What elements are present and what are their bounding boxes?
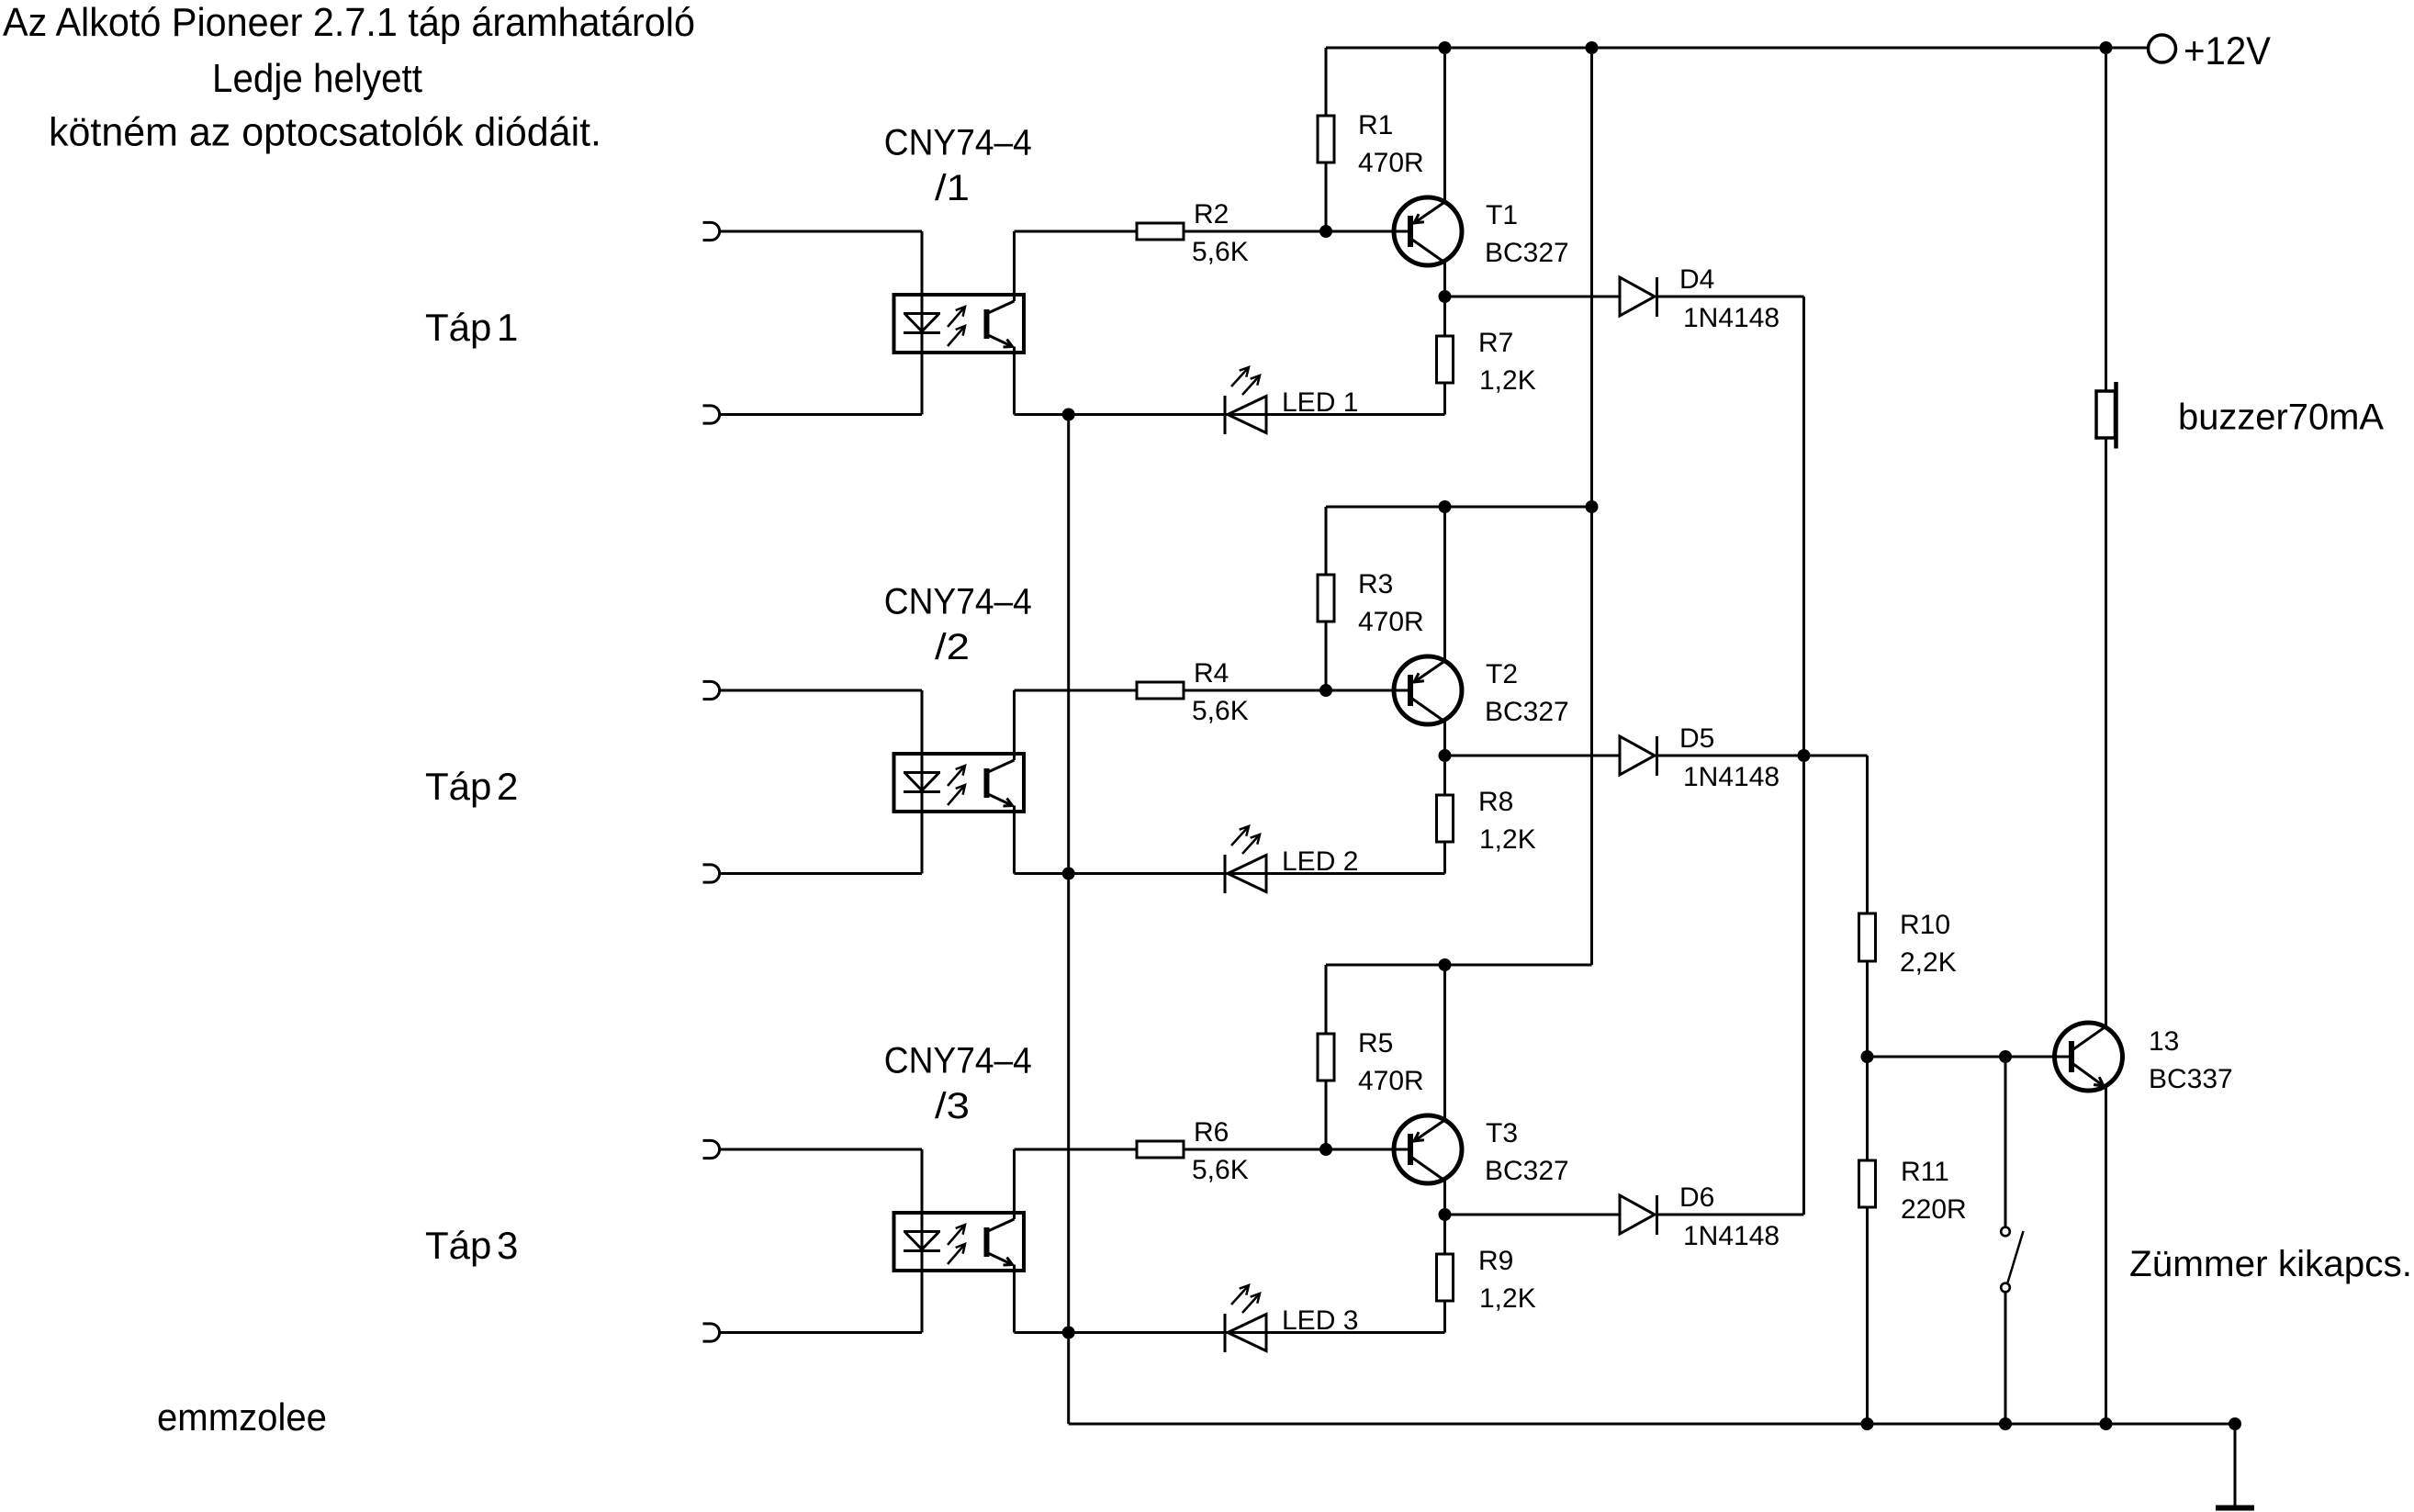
svg-text:R2: R2 — [1194, 199, 1229, 230]
LED 2 emission arrows — [1231, 826, 1249, 846]
wire: section 3 top feed — [1326, 964, 1592, 967]
resistor R5 body — [1318, 1034, 1334, 1081]
svg-text:CNY74–4: CNY74–4 — [884, 123, 1032, 163]
svg-text:CNY74–4: CNY74–4 — [884, 1041, 1032, 1081]
node: T2 emitter branch on section top — [1439, 500, 1452, 513]
LED 2 cathode bar — [1224, 855, 1227, 893]
wire: T2 emitter up — [1443, 507, 1446, 661]
transistor Q13 collector — [2073, 1026, 2106, 1049]
node: switch branch on base wire — [1999, 1050, 2012, 1063]
terminal input 1b — [703, 406, 720, 423]
optocoupler U1 body (CNY74-4/1) — [894, 295, 1025, 353]
resistor R8 body — [1437, 795, 1454, 842]
svg-text:470R: 470R — [1358, 1066, 1424, 1096]
svg-text:Táp: Táp — [425, 306, 491, 349]
switch bottom contact — [2001, 1283, 2010, 1293]
resistor R10 body — [1859, 913, 1876, 961]
wire: section 2 top feed — [1326, 506, 1592, 509]
opto U1 coupling arrows — [948, 307, 965, 327]
wire: opto1 collector to R2 — [1015, 230, 1138, 233]
node: supply rail joint at section 2 top — [1586, 500, 1599, 513]
svg-text:emmzolee: emmzolee — [157, 1395, 327, 1439]
wire: LED rail down to ground wire — [1067, 1333, 1070, 1425]
wire: D5 anode wire — [1445, 755, 1621, 757]
wire: R4 to base junction — [1184, 689, 1408, 692]
transistor T2 BC327 circle — [1394, 656, 1462, 724]
LED 3 cathode bar — [1224, 1314, 1227, 1352]
wire: input 1b to opto LED cathode — [719, 413, 922, 416]
svg-text:CNY74–4: CNY74–4 — [884, 582, 1032, 622]
wire: ground stub — [2234, 1424, 2237, 1506]
wire: R1 bottom to base junction — [1325, 162, 1328, 231]
wire: LED rail (LED2-LED3) — [1067, 874, 1070, 1333]
svg-text:T1: T1 — [1486, 200, 1518, 230]
wire: R3 bottom to base junction — [1325, 622, 1328, 690]
resistor R4 body — [1137, 682, 1184, 699]
terminal input 3a — [703, 1140, 720, 1158]
wire: opto3 collector up — [1013, 1149, 1016, 1219]
resistor R7 body — [1437, 336, 1454, 383]
svg-text:LED 1: LED 1 — [1282, 387, 1358, 418]
wire: D4 cathode to OR rail — [1657, 296, 1804, 298]
ground — [2216, 1506, 2254, 1511]
wire: base wire into Q13 — [2069, 1056, 2072, 1058]
opto U2 phototransistor emitter with arrow — [988, 794, 1013, 806]
svg-text:/2: /2 — [935, 627, 970, 667]
wire: R9 bottom to LED wire — [1443, 1301, 1446, 1333]
svg-text:R8: R8 — [1478, 787, 1513, 817]
wire: R1 top from +12V rail — [1325, 48, 1328, 116]
opto U1 internal LED — [904, 314, 940, 333]
opto U2 phototransistor collector — [988, 760, 1015, 772]
wire: D6 anode wire — [1445, 1214, 1621, 1216]
transistor T2 emitter (arrow into base, PNP) — [1414, 661, 1445, 682]
svg-text:1N4148: 1N4148 — [1683, 303, 1780, 333]
svg-text:1N4148: 1N4148 — [1683, 1221, 1780, 1251]
wire: +12V to buzzer — [2105, 48, 2107, 391]
diode D5 cathode bar — [1656, 736, 1658, 776]
diode D4 triangle — [1620, 277, 1655, 316]
wire: LED 3 wire from opto emitter — [1013, 1265, 1016, 1333]
optocoupler U2 body (CNY74-4/2) — [894, 754, 1025, 812]
wire: opto3 collector to R6 — [1015, 1148, 1138, 1151]
LED 2 triangle — [1228, 856, 1266, 892]
LED 1 cathode bar — [1224, 396, 1227, 434]
opto U1 phototransistor collector — [988, 301, 1015, 313]
wire: LED 2 wire from opto emitter — [1013, 806, 1016, 874]
wire: T1 collector down — [1443, 262, 1446, 297]
wire: T2 collector down — [1443, 721, 1446, 756]
buzzer body — [2096, 391, 2116, 438]
svg-text:Táp: Táp — [425, 765, 491, 808]
resistor R11 body — [1859, 1160, 1876, 1207]
wire: opto1 LED vertical — [921, 231, 924, 415]
wire: opto2 collector up — [1013, 690, 1016, 760]
wire: input 2a to opto LED anode — [719, 689, 922, 692]
wire: input 2b to opto LED cathode — [719, 872, 922, 875]
transistor T3 collector — [1412, 1158, 1445, 1181]
svg-text:Zümmer kikapcs.: Zümmer kikapcs. — [2129, 1244, 2412, 1284]
svg-text:R9: R9 — [1478, 1246, 1513, 1276]
wire: D6 cathode wire — [1657, 1214, 1804, 1216]
wire: R3 top drop — [1325, 507, 1328, 575]
opto U1 phototransistor base bar — [984, 309, 990, 339]
transistor T3 emitter (arrow into base, PNP) — [1414, 1120, 1445, 1141]
opto U1 phototransistor emitter with arrow — [988, 335, 1013, 347]
wire: T3 emitter up — [1443, 965, 1446, 1120]
wire: D5 cathode wire — [1657, 755, 1868, 757]
opto U3 internal LED — [904, 1232, 940, 1251]
wire: BC337 base wire — [1868, 1056, 2070, 1058]
svg-text:+12V: +12V — [2184, 29, 2271, 73]
svg-text:BC327: BC327 — [1485, 1156, 1569, 1186]
svg-text:BC327: BC327 — [1485, 697, 1569, 727]
terminal input 3b — [703, 1324, 720, 1341]
opto U3 phototransistor base bar — [984, 1227, 990, 1257]
svg-text:T2: T2 — [1486, 659, 1518, 689]
LED 1 emission arrows — [1231, 367, 1249, 386]
resistor R3 body — [1318, 575, 1334, 622]
svg-text:2,2K: 2,2K — [1900, 947, 1957, 978]
node: supply rail branch on +12V rail — [1586, 41, 1599, 54]
svg-text:D4: D4 — [1679, 264, 1714, 295]
wire: LED 1 wire from opto emitter — [1013, 347, 1016, 415]
node: R11 at ground wire — [1861, 1417, 1874, 1430]
svg-text:R3: R3 — [1358, 569, 1393, 599]
buzzer bar — [2114, 382, 2118, 449]
svg-text:1N4148: 1N4148 — [1683, 762, 1780, 792]
svg-text:470R: 470R — [1358, 148, 1424, 178]
opto U3 phototransistor collector — [988, 1219, 1015, 1231]
svg-text:R11: R11 — [1901, 1157, 1949, 1187]
wire: buzzer to BC337 collector — [2105, 438, 2107, 1026]
svg-text:5,6K: 5,6K — [1192, 696, 1249, 726]
terminal input 2b — [703, 865, 720, 882]
LED 3 triangle — [1228, 1315, 1266, 1351]
wire: R7 bottom to LED wire — [1443, 383, 1446, 415]
svg-text:2: 2 — [497, 765, 518, 808]
node: R5 bottom / T3 base — [1319, 1143, 1332, 1156]
node: R3 bottom / T2 base — [1319, 684, 1332, 697]
opto U2 phototransistor base bar — [984, 768, 990, 798]
wire: OR rail down from D4 — [1802, 297, 1805, 756]
svg-text:13: 13 — [2149, 1026, 2179, 1057]
wire: input 1a to opto LED anode — [719, 230, 922, 233]
svg-text:BC337: BC337 — [2149, 1064, 2233, 1094]
svg-text:D6: D6 — [1679, 1182, 1714, 1213]
wire: R9 top from collector node — [1443, 1215, 1446, 1254]
diode D6 cathode bar — [1656, 1195, 1658, 1235]
svg-text:R10: R10 — [1900, 910, 1950, 940]
svg-text:Az Alkotó Pioneer 2.7.1 táp ár: Az Alkotó Pioneer 2.7.1 táp áramhatároló — [3, 0, 695, 45]
node: OR rail joins D5 wire — [1798, 749, 1811, 762]
transistor Q13 BC337 circle — [2055, 1023, 2123, 1091]
wire: opto2 LED vertical — [921, 690, 924, 874]
node: T2 collector / D5 / R8 — [1439, 749, 1452, 762]
resistor R6 body — [1137, 1141, 1184, 1158]
wire: supply rail from +12V to section 2 top — [1590, 48, 1593, 507]
wire: T3 collector down — [1443, 1180, 1446, 1215]
terminal input 1a — [703, 222, 720, 240]
svg-text:buzzer70mA: buzzer70mA — [2178, 398, 2384, 438]
svg-text:/3: /3 — [935, 1086, 970, 1126]
wire: R8 bottom to LED wire — [1443, 842, 1446, 874]
svg-text:R4: R4 — [1194, 658, 1229, 689]
svg-text:5,6K: 5,6K — [1192, 237, 1249, 267]
wire: supply rail section 2 to section 3 top — [1590, 507, 1593, 965]
wire: R6 to base junction — [1184, 1148, 1408, 1151]
transistor T1 base bar — [1408, 216, 1413, 247]
LED 1 triangle — [1228, 397, 1266, 433]
switch lever (open) — [2008, 1231, 2024, 1282]
svg-text:D5: D5 — [1679, 723, 1714, 754]
svg-text:1,2K: 1,2K — [1479, 824, 1536, 855]
wire: LED rail (LED1-LED2) — [1067, 415, 1070, 874]
svg-text:R7: R7 — [1478, 328, 1513, 358]
svg-text:1: 1 — [497, 306, 518, 349]
transistor T2 collector — [1412, 699, 1445, 722]
wire: ground wire — [1069, 1423, 2235, 1426]
wire: D5 output to R10 — [1866, 756, 1869, 913]
node: ground stub joint — [2229, 1417, 2241, 1430]
wire: R11 bottom to ground wire — [1866, 1207, 1869, 1424]
wire: Q13 emitter to ground wire — [2105, 1087, 2107, 1424]
node: LED rail joint on LED 1 wire — [1062, 409, 1075, 421]
wire: R7 top from collector node — [1443, 297, 1446, 336]
transistor T1 emitter (arrow into base, PNP) — [1414, 202, 1445, 223]
svg-text:LED 3: LED 3 — [1282, 1305, 1358, 1336]
transistor T1 BC327 circle — [1394, 197, 1462, 265]
transistor Q13 emitter (arrow out, NPN) — [2073, 1064, 2104, 1086]
wire: D4 anode wire — [1445, 296, 1621, 298]
terminal +12V — [2149, 35, 2176, 62]
wire: T1 emitter up — [1443, 48, 1446, 202]
wire: +12V rail to terminal — [2106, 47, 2150, 50]
transistor Q13 base bar — [2069, 1041, 2074, 1072]
node: LED rail joint on LED 2 wire — [1062, 868, 1075, 880]
transistor T3 BC327 circle — [1394, 1115, 1462, 1183]
terminal input 2a — [703, 681, 720, 699]
svg-text:/1: /1 — [935, 168, 970, 208]
wire: R8 top from collector node — [1443, 756, 1446, 795]
svg-text:1,2K: 1,2K — [1479, 365, 1536, 396]
diode D6 triangle — [1620, 1195, 1655, 1234]
wire: R5 top drop — [1325, 965, 1328, 1034]
wire: opto1 collector up — [1013, 231, 1016, 301]
wire: R10 bottom to BC337 base wire — [1866, 961, 1869, 1057]
svg-text:R6: R6 — [1194, 1117, 1229, 1148]
svg-text:T3: T3 — [1486, 1118, 1518, 1148]
svg-text:5,6K: 5,6K — [1192, 1155, 1249, 1185]
svg-text:Ledje helyett: Ledje helyett — [212, 56, 422, 101]
node: T3 collector / D6 / R9 — [1439, 1208, 1452, 1221]
diode D5 triangle — [1620, 736, 1655, 775]
resistor R2 body — [1137, 223, 1184, 240]
transistor T2 base bar — [1408, 675, 1413, 706]
svg-text:BC327: BC327 — [1485, 238, 1569, 268]
wire: input 3b to opto LED cathode — [719, 1331, 922, 1334]
opto U2 internal LED — [904, 773, 940, 792]
svg-text:R5: R5 — [1358, 1028, 1393, 1058]
transistor T1 collector — [1412, 240, 1445, 263]
node: R1 bottom / T1 base — [1319, 225, 1332, 238]
LED 3 emission arrows — [1231, 1285, 1249, 1305]
wire: R5 bottom to base junction — [1325, 1081, 1328, 1149]
wire: OR rail down to D6 wire — [1802, 756, 1805, 1215]
wire: R11 top — [1866, 1057, 1869, 1160]
svg-text:470R: 470R — [1358, 607, 1424, 637]
opto U3 coupling arrows — [948, 1225, 965, 1245]
node: T1 emitter branch on +12V rail — [1439, 41, 1452, 54]
svg-text:3: 3 — [497, 1224, 518, 1267]
svg-text:kötném az optocsatolók diódáit: kötném az optocsatolók diódáit. — [49, 110, 601, 155]
wire: opto3 LED vertical — [921, 1149, 924, 1333]
switch top contact — [2001, 1227, 2010, 1237]
node: T3 emitter branch on section top — [1439, 958, 1452, 971]
node: switch at ground wire — [1999, 1417, 2012, 1430]
svg-text:Táp: Táp — [425, 1224, 491, 1267]
wire: switch branch down from base wire — [2004, 1057, 2007, 1227]
opto U3 phototransistor emitter with arrow — [988, 1253, 1013, 1265]
wire: switch to ground wire — [2004, 1293, 2007, 1425]
transistor T3 base bar — [1408, 1134, 1413, 1165]
resistor R9 body — [1437, 1254, 1454, 1301]
node: R10/R11/base junction — [1861, 1050, 1874, 1063]
svg-text:R1: R1 — [1358, 110, 1393, 140]
wire: +12V top rail — [1326, 47, 2106, 50]
resistor R1 body — [1318, 116, 1334, 162]
node: Q13 emitter at ground wire — [2100, 1417, 2113, 1430]
svg-text:LED 2: LED 2 — [1282, 846, 1358, 877]
wire: R2 to base junction — [1184, 230, 1408, 233]
svg-text:1,2K: 1,2K — [1479, 1283, 1536, 1314]
node: LED rail joint on LED 3 wire — [1062, 1327, 1075, 1339]
opto U2 coupling arrows — [948, 766, 965, 786]
diode D4 cathode bar — [1656, 277, 1658, 317]
svg-text:220R: 220R — [1901, 1194, 1967, 1225]
wire: input 3a to opto LED anode — [719, 1148, 922, 1151]
optocoupler U3 body (CNY74-4/3) — [894, 1213, 1025, 1271]
wire: opto2 collector to R4 — [1015, 689, 1138, 692]
node: T1 collector / D4 / R7 — [1439, 290, 1452, 303]
node: buzzer branch on +12V rail — [2100, 41, 2113, 54]
